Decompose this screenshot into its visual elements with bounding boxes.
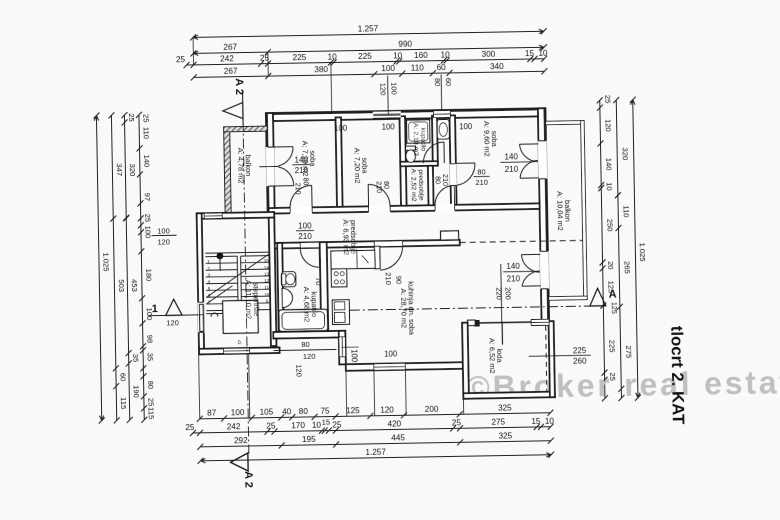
wall interior corridor top bbox=[269, 203, 540, 213]
opening stair block top bbox=[204, 213, 222, 219]
dimension row top overall 1.257 bbox=[193, 31, 544, 37]
dimension column left 25/320/2/453/35/190 bbox=[124, 115, 129, 420]
label 100 window step-down bbox=[342, 346, 359, 348]
dimension column left overall 1.025 bbox=[96, 116, 101, 421]
wall kitchen bottom exterior bbox=[346, 362, 463, 371]
door kupatilo from wc-strip bbox=[423, 142, 444, 163]
exterior right wall outer edge emphasis bbox=[543, 108, 546, 140]
staircase walk line with dot bbox=[216, 253, 223, 260]
washbasin bathroom2 bbox=[282, 288, 293, 307]
wall kupatilo bottom bbox=[400, 161, 438, 166]
dimension row top 267/990 bbox=[193, 47, 544, 53]
wall bathroom2 right bbox=[320, 242, 329, 331]
wall between soba2 and kupatilo bbox=[399, 116, 406, 206]
staircase center stringer bbox=[236, 256, 239, 300]
window kitchen bottom bbox=[374, 363, 406, 370]
wall stair block right / main left lower bbox=[269, 218, 277, 347]
wall stair block bottom bbox=[199, 347, 280, 354]
window soba2 top bbox=[373, 111, 401, 118]
exterior left wall outer edge emphasis bbox=[266, 113, 269, 147]
staircase tread numbers bbox=[207, 258, 270, 305]
staircase treads right flight bbox=[241, 256, 271, 310]
door soba2 to corridor bbox=[369, 205, 391, 213]
section marker 1 triangle bbox=[165, 299, 182, 315]
door wc-strip to corridor bbox=[435, 204, 455, 212]
wall stub pillar corridor right bbox=[441, 231, 459, 240]
loggia open side dashed bbox=[546, 326, 547, 392]
exterior top wall outer edge emphasis bbox=[266, 109, 545, 114]
staircase top line bbox=[205, 252, 269, 253]
jamb stub loggia corner bbox=[468, 320, 476, 326]
extension lines bottom windows bbox=[373, 370, 376, 415]
staircase landing shaft bbox=[223, 300, 259, 333]
dimension column right overall 1.025 bbox=[633, 100, 638, 398]
wall loggia bottom bbox=[463, 392, 555, 399]
door balcony from soba1 (double swing) bbox=[266, 147, 275, 186]
kitchen door swing arc bbox=[380, 246, 403, 270]
section line 2-2 vertical dash-dot bbox=[243, 121, 249, 454]
wall step-down exterior bbox=[339, 331, 346, 365]
wall loggia left bbox=[462, 323, 469, 399]
section marker A2 bottom triangle bbox=[230, 453, 248, 471]
extension line 200/220 bbox=[501, 264, 502, 322]
kitchen counter bbox=[331, 250, 375, 269]
balcony right railing right bbox=[581, 121, 588, 300]
section marker A triangle bbox=[590, 288, 606, 306]
section marker A2 top triangle bbox=[223, 103, 243, 119]
dimension row top 267/380/100/110/60/340 bbox=[194, 71, 545, 77]
window wc-strip top bbox=[433, 110, 450, 117]
section line 1 left bbox=[148, 314, 202, 317]
wall exterior top bbox=[266, 108, 546, 121]
section line A-A dash-dot bbox=[350, 306, 590, 310]
balcony top parapet hatched bbox=[224, 126, 268, 132]
door soba1 to corridor bbox=[290, 206, 312, 214]
french door soba3 to balcony bbox=[538, 141, 548, 179]
door mark D at stair bottom bbox=[211, 313, 218, 317]
leader line at balcony door bbox=[259, 165, 278, 167]
kitchen door panel bbox=[374, 246, 380, 269]
dimension column right 320/110/265/275 bbox=[616, 100, 621, 398]
wall exterior right bbox=[538, 108, 549, 323]
corridor dashed centerline bbox=[348, 311, 351, 313]
leader line 225/260 bbox=[529, 355, 569, 358]
wall exterior left upper bbox=[266, 113, 275, 212]
french door dining to balcony bbox=[540, 251, 550, 289]
toilet bathroom2 bbox=[281, 272, 296, 287]
window step-down wall bbox=[339, 337, 346, 357]
kitchen stove with burners bbox=[331, 269, 347, 287]
window loggia top right bbox=[531, 319, 549, 325]
dimension column right 25/120/140/10/250/20/125/225/25 bbox=[600, 100, 605, 398]
leader line 80/120 bbox=[274, 349, 337, 350]
dimension row bottom 292/195/445/325 bbox=[200, 441, 551, 447]
kitchen sink unit bbox=[332, 300, 349, 325]
wall loggia top thin line bbox=[462, 322, 475, 324]
toilet kupatilo bbox=[406, 146, 416, 150]
wall between kupatilo and wc-strip bbox=[432, 116, 438, 163]
wall corridor-dining dashed opening bbox=[460, 240, 583, 242]
wall interior corridor bottom bbox=[269, 240, 460, 249]
extension lines top windows bbox=[387, 76, 390, 114]
bathtub bathroom2 bbox=[279, 309, 328, 331]
balcony right railing bottom bbox=[549, 296, 588, 300]
entry door in stair left wall bbox=[198, 302, 205, 332]
shower tray kupatilo bbox=[407, 120, 430, 143]
wall bathroom2 bottom exterior bbox=[273, 331, 345, 339]
wall loggia right bbox=[549, 321, 555, 397]
wall between wc-strip and soba3 bbox=[449, 115, 456, 205]
door kitchen from corridor bbox=[375, 241, 403, 246]
balcony left parapet hatched bbox=[224, 127, 232, 213]
wall stair block top bbox=[197, 212, 275, 219]
staircase treads left flight bbox=[205, 256, 238, 311]
loggia door leaf bbox=[501, 323, 503, 345]
door bathroom2 from corridor bbox=[301, 243, 320, 248]
window stair block bottom bbox=[224, 348, 250, 354]
wall between predsoblje2 and wc-strip bbox=[428, 166, 434, 206]
extension line top left corner bbox=[192, 37, 194, 64]
dimension column left detail bbox=[139, 115, 144, 420]
dimension row bottom 25/242/25/170/10/15/25/420/25/275/15/10 bbox=[193, 427, 551, 433]
dimension row bottom overall 1.257 bbox=[200, 455, 551, 461]
wc fixture in strip bbox=[437, 119, 449, 139]
wall stair block left bbox=[197, 213, 204, 354]
wall bathroom2 left bbox=[277, 243, 284, 336]
dimension column left 347/503/60/115 bbox=[111, 115, 116, 420]
jamb stub loggia door left bbox=[475, 320, 480, 326]
wall between soba1 and soba2 bbox=[336, 117, 343, 207]
door soba3 from strip bbox=[450, 164, 457, 186]
dimension row bottom 87/100/105/40/80/75/125/120/200/325 bbox=[200, 413, 551, 419]
dimension row top detail 242.. bbox=[187, 59, 545, 65]
balcony right railing top bbox=[546, 121, 585, 125]
staircase flight end line bbox=[206, 312, 222, 314]
